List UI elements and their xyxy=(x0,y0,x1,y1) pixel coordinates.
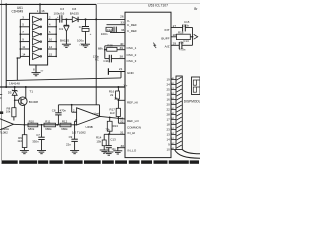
wire segment D1 xyxy=(171,94,176,96)
node Vref divider tap xyxy=(117,86,119,88)
svg-text:DISPMODUL: DISPMODUL xyxy=(184,100,200,104)
capacitor C3 100u/16 xyxy=(59,15,61,22)
svg-text:100n: 100n xyxy=(101,32,108,36)
node R13 tap xyxy=(109,117,111,119)
wire pin 32 COMMON xyxy=(118,122,125,124)
svg-text:36: 36 xyxy=(114,96,118,100)
zener diode D5 xyxy=(14,87,16,90)
wire R17 bottom xyxy=(117,117,119,119)
left edge cut marks xyxy=(0,94,2,96)
off-page arrow xyxy=(194,34,198,39)
wire segment A3 xyxy=(171,149,176,151)
svg-text:U49B: U49B xyxy=(86,125,93,129)
resistor R18 47k xyxy=(177,34,191,39)
node output bus junction xyxy=(55,56,57,58)
svg-text:33: 33 xyxy=(120,21,124,25)
op-amp U49B xyxy=(77,108,100,125)
wire pin 38 OSC_3 xyxy=(112,58,125,60)
capacitor C4 electrolytic 100u/16 xyxy=(85,19,87,26)
wire segment G2 xyxy=(171,144,176,146)
svg-text:23: 23 xyxy=(166,128,170,132)
wire output pin 15 xyxy=(48,55,57,57)
svg-text:INT: INT xyxy=(165,28,170,32)
svg-text:T1: T1 xyxy=(30,90,34,94)
svg-text:C14: C14 xyxy=(183,39,189,43)
svg-text:12: 12 xyxy=(49,45,53,49)
wire feedback xyxy=(58,104,99,106)
capacitor C9 22n xyxy=(74,125,76,139)
svg-text:1/2 TL082: 1/2 TL082 xyxy=(72,130,86,134)
wire segment F1 xyxy=(171,104,176,106)
svg-text:2k: 2k xyxy=(110,93,114,97)
svg-text:C_REF: C_REF xyxy=(127,23,137,27)
wire R18 to node xyxy=(190,36,192,38)
node C4 tap xyxy=(85,18,87,20)
resistor R9 1k2 xyxy=(23,125,25,135)
node left rail bottom xyxy=(5,86,7,88)
svg-text:29: 29 xyxy=(173,41,177,45)
resistor R11 680k xyxy=(44,123,56,127)
svg-text:C9: C9 xyxy=(69,135,73,139)
wire filter chain xyxy=(24,124,77,126)
node D1 tap xyxy=(65,18,67,20)
svg-text:C_REF: C_REF xyxy=(127,29,137,33)
inverter gate 2 of U61 xyxy=(33,24,41,30)
wire input pin 7 xyxy=(20,33,29,35)
connector J1 display header xyxy=(176,76,182,150)
svg-text:C12: C12 xyxy=(107,28,113,32)
svg-text:14: 14 xyxy=(166,138,170,142)
capacitor C12 100n reference cap xyxy=(113,27,115,33)
wire segment B1 xyxy=(171,84,176,86)
ground C13 xyxy=(104,152,113,155)
wire D3 to pin 26 xyxy=(78,18,125,20)
faint cropped line top right xyxy=(97,2,200,4)
node divider bottom xyxy=(118,117,120,119)
node C9 tap xyxy=(74,124,76,126)
svg-text:10k: 10k xyxy=(6,110,11,114)
svg-text:IN_HI: IN_HI xyxy=(128,131,136,135)
svg-text:IN_LO: IN_LO xyxy=(128,148,137,152)
node T1 base tap xyxy=(14,99,16,101)
wire to inverting input xyxy=(71,105,73,112)
svg-text:22: 22 xyxy=(166,108,170,112)
pen scribble artifact xyxy=(153,43,156,48)
ground R14 xyxy=(100,150,109,153)
wire long vertical V- column xyxy=(95,4,97,104)
inverter gate 1 of U61 xyxy=(33,16,41,22)
node V- column crossing xyxy=(95,18,97,20)
svg-text:GND: GND xyxy=(127,71,135,75)
svg-text:220n: 220n xyxy=(183,24,189,28)
svg-text:680k: 680k xyxy=(28,127,35,131)
svg-text:30: 30 xyxy=(121,144,125,148)
svg-text:20: 20 xyxy=(166,103,170,107)
wire input bus to ground line xyxy=(17,58,20,80)
svg-text:A/Z: A/Z xyxy=(165,45,170,49)
node R10-R11 junction xyxy=(41,124,43,126)
node D5 tap xyxy=(14,86,16,88)
svg-text:1N4148: 1N4148 xyxy=(9,81,20,85)
node CD4049 supply junction xyxy=(39,3,41,5)
svg-text:OSC_3: OSC_3 xyxy=(127,59,137,63)
capacitor C13 xyxy=(108,134,110,145)
svg-text:24: 24 xyxy=(166,83,170,87)
resistor R17 1k3 xyxy=(116,108,120,116)
svg-text:13: 13 xyxy=(166,133,170,137)
node pin2 feedback junction xyxy=(71,104,73,106)
svg-text:38: 38 xyxy=(120,54,124,58)
svg-text:17: 17 xyxy=(166,118,170,122)
wire supply stub pins 1/16 xyxy=(39,4,41,13)
wire to COMMON xyxy=(117,118,119,123)
node IN_LO ground tap xyxy=(117,147,119,149)
svg-text:19: 19 xyxy=(166,78,170,82)
wire pin 28 xyxy=(171,36,177,38)
ground U61 pin8 xyxy=(32,73,41,76)
node input bus junction xyxy=(20,26,22,28)
wire segment A1 xyxy=(171,79,176,81)
display module box xyxy=(192,77,201,95)
svg-text:BA155: BA155 xyxy=(60,39,69,43)
svg-text:RC: RC xyxy=(95,57,99,61)
svg-text:C7: C7 xyxy=(36,133,40,137)
svg-text:REF_HI: REF_HI xyxy=(127,101,138,105)
wire pin 21 GND xyxy=(109,71,125,73)
svg-text:D1: D1 xyxy=(59,27,63,31)
wire segment F2 xyxy=(171,139,176,141)
cable curve outer xyxy=(175,150,201,159)
svg-text:D3: D3 xyxy=(72,7,76,11)
wire pin 30 IN_LO xyxy=(118,147,125,149)
wire left vertical rail xyxy=(5,4,7,87)
svg-text:1k3: 1k3 xyxy=(110,111,115,115)
wire pin 3 bend xyxy=(75,121,77,125)
svg-text:1k2: 1k2 xyxy=(17,139,22,143)
wire pin 2 stub xyxy=(72,111,77,113)
svg-text:BUFF: BUFF xyxy=(161,36,169,40)
resistor R10 680k xyxy=(28,123,38,127)
svg-text:31: 31 xyxy=(120,130,124,134)
svg-text:100u/16: 100u/16 xyxy=(54,11,65,15)
inverter gate 5 of U61 xyxy=(33,46,41,52)
wire ground net riser xyxy=(120,72,122,78)
wire ground net horizontal xyxy=(6,78,121,81)
svg-text:330n: 330n xyxy=(32,140,39,144)
wire C3 to D3 xyxy=(62,18,72,20)
node output bus junction xyxy=(55,26,57,28)
svg-text:18: 18 xyxy=(166,123,170,127)
wire input pin 9 xyxy=(20,41,29,43)
svg-text:OSC_2: OSC_2 xyxy=(127,53,137,57)
svg-text:1/2 TL082: 1/2 TL082 xyxy=(0,131,8,135)
wire input pin 5 xyxy=(20,26,29,28)
wire pin 31 IN_HI xyxy=(104,133,125,135)
wire divider top xyxy=(117,87,119,91)
connector hatch wires xyxy=(177,77,182,148)
wire input bus xyxy=(19,19,21,58)
wire U49A output xyxy=(14,123,25,126)
node left rail junction xyxy=(5,3,7,5)
wire input pin 14 xyxy=(20,55,29,57)
diode D3 BA155 xyxy=(72,17,78,22)
node collector/R9 junction xyxy=(24,124,26,126)
wire segment G1 xyxy=(171,109,176,111)
wire U49B output to pin 35 xyxy=(100,116,125,119)
ground C7 xyxy=(37,151,46,154)
svg-text:39: 39 xyxy=(120,46,124,50)
wire segment C1 xyxy=(171,89,176,91)
svg-text:680k: 680k xyxy=(61,127,68,131)
wire output pin 10 xyxy=(48,41,57,43)
node output bus junction xyxy=(55,41,57,43)
svg-text:34: 34 xyxy=(121,28,125,32)
inverter gate 4 of U61 xyxy=(33,39,41,45)
wire base xyxy=(15,99,19,101)
node R11-R12 junction xyxy=(56,124,58,126)
wire output pin 2 xyxy=(48,18,57,20)
wire segment D2 xyxy=(171,129,176,131)
svg-text:70k: 70k xyxy=(105,128,110,132)
ground IN_LO xyxy=(113,151,122,154)
svg-text:10: 10 xyxy=(49,38,53,42)
cable curve inner xyxy=(182,150,200,154)
svg-text:16: 16 xyxy=(166,98,170,102)
svg-text:R25: R25 xyxy=(107,44,113,48)
node REF_HI tap xyxy=(118,99,120,101)
ground C4 xyxy=(81,44,90,47)
ground terminal bar pin21 xyxy=(107,68,109,75)
wire OSC loop vertical xyxy=(104,46,106,59)
wire U61 pin 8 to ground xyxy=(35,65,37,73)
inverter gate 3 of U61 xyxy=(33,31,41,37)
wire output bus xyxy=(55,19,57,56)
transistor T1 BC308 xyxy=(19,97,28,106)
wire output pin 4 xyxy=(48,26,57,28)
svg-text:470n: 470n xyxy=(60,108,67,112)
svg-text:BC308: BC308 xyxy=(29,100,39,104)
node integrator junction xyxy=(192,36,194,38)
resistor R8 10k xyxy=(12,108,16,117)
capacitor C15 220n integrator cap xyxy=(171,27,182,29)
svg-text:CD4049: CD4049 xyxy=(12,10,24,14)
node input bus junction xyxy=(20,48,22,50)
wire input pin 11 xyxy=(20,48,29,50)
svg-text:11: 11 xyxy=(22,45,25,49)
wire R16 to R17 xyxy=(117,99,119,108)
ground R9 xyxy=(20,151,29,154)
ground D1 xyxy=(62,44,71,47)
node OSC junction xyxy=(104,49,106,51)
capacitor C14 470n auto-zero cap xyxy=(171,44,179,46)
wire pin 34 C_REF xyxy=(110,32,125,34)
resistor R13 70k xyxy=(109,117,111,121)
resistor R16 2k xyxy=(116,91,120,99)
svg-text:C11: C11 xyxy=(103,59,109,63)
svg-text:15: 15 xyxy=(49,52,53,56)
node input bus junction xyxy=(20,41,22,43)
svg-text:28: 28 xyxy=(166,113,170,117)
inverter gate 6 of U61 xyxy=(33,53,41,59)
node pin21 ground tap xyxy=(120,71,122,73)
wire pin 40 OSC_1 xyxy=(105,45,125,47)
svg-text:C4: C4 xyxy=(79,25,83,29)
wire to R25 xyxy=(105,49,107,51)
wire R13 bottom xyxy=(109,131,111,134)
svg-text:+: + xyxy=(57,15,59,19)
wire segment B2 xyxy=(171,119,176,121)
node input network xyxy=(108,133,110,135)
wire output pin 6 xyxy=(48,33,57,35)
IC U61 CD4049 body xyxy=(30,13,48,65)
svg-text:16: 16 xyxy=(41,9,45,13)
svg-text:BA155: BA155 xyxy=(70,11,79,15)
svg-text:OSC_1: OSC_1 xyxy=(127,46,137,50)
svg-text:R12: R12 xyxy=(62,119,68,123)
wire bus to C3 xyxy=(56,18,60,20)
svg-text:C8: C8 xyxy=(52,108,56,112)
node input bus corner xyxy=(17,57,19,59)
page left border xyxy=(0,0,2,164)
svg-text:+Vref: +Vref xyxy=(92,111,100,115)
ground C9 xyxy=(70,151,79,154)
svg-text:25: 25 xyxy=(166,88,170,92)
svg-text:U53 ICL7107: U53 ICL7107 xyxy=(148,3,168,7)
svg-text:COMMON: COMMON xyxy=(127,126,141,130)
wire integrator node vertical xyxy=(192,28,194,46)
svg-text:15k: 15k xyxy=(96,139,101,143)
wire pin 39 OSC_2 xyxy=(117,49,125,51)
wire pin 36 REF_HI xyxy=(118,99,125,101)
svg-text:10: 10 xyxy=(166,148,170,152)
svg-text:C13: C13 xyxy=(110,137,116,141)
resistor R25 xyxy=(107,47,117,51)
svg-text:680k: 680k xyxy=(45,127,52,131)
wire pin 33 C_REF xyxy=(107,24,126,26)
capacitor C7 330n xyxy=(41,125,43,137)
svg-text:22n: 22n xyxy=(66,143,71,147)
op-amp U49A xyxy=(0,118,14,131)
capacitor C11 xyxy=(105,58,109,60)
wire feedback to output xyxy=(99,105,101,117)
resistor R12 680k xyxy=(60,123,71,127)
node T1 emitter tap xyxy=(25,86,27,88)
svg-text:R13: R13 xyxy=(113,124,119,128)
svg-text:C15: C15 xyxy=(184,20,190,24)
svg-text:R18: R18 xyxy=(178,30,184,34)
wire segment E2 xyxy=(171,134,176,136)
display digits xyxy=(193,80,196,85)
svg-text:26: 26 xyxy=(120,15,124,19)
diode D1 BA155 xyxy=(65,19,67,25)
wire segment A2 xyxy=(171,114,176,116)
wire segment E1 xyxy=(171,99,176,101)
svg-text:68k: 68k xyxy=(98,47,103,51)
node output bus top xyxy=(55,19,57,21)
node input bus junction xyxy=(20,33,22,35)
resistor R14 15k xyxy=(103,134,105,140)
svg-text:C3: C3 xyxy=(60,7,64,11)
IC U53 ICL7107 body xyxy=(125,12,171,157)
svg-text:21: 21 xyxy=(119,67,123,71)
svg-text:D5: D5 xyxy=(8,90,12,94)
svg-text:+: + xyxy=(90,32,92,36)
node output bus junction xyxy=(55,33,57,35)
wire output pin 12 xyxy=(48,48,57,50)
wire V+ top rail xyxy=(0,3,96,5)
svg-text:14: 14 xyxy=(22,52,26,56)
wire segment C2 xyxy=(171,124,176,126)
wire input pin 3 xyxy=(20,18,29,20)
wire V+ lower rail xyxy=(0,86,125,88)
svg-text:R10: R10 xyxy=(29,119,35,123)
svg-text:R11: R11 xyxy=(45,119,50,123)
node output bus junction xyxy=(55,48,57,50)
wire T1 collector down xyxy=(23,108,25,125)
svg-text:REF_LO: REF_LO xyxy=(127,119,139,123)
capacitor C8 470n feedback xyxy=(57,105,59,113)
svg-text:32: 32 xyxy=(120,120,124,124)
svg-text:470n: 470n xyxy=(179,47,186,51)
svg-text:15: 15 xyxy=(166,93,170,97)
cropped caption band xyxy=(2,160,199,163)
